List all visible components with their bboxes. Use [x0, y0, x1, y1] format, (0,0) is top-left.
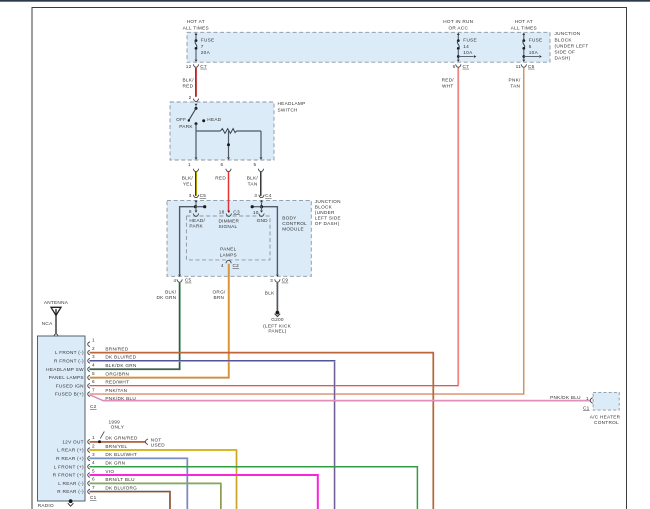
wire ORG/BRN — [90, 264, 229, 378]
svg-text:BLK/: BLK/ — [165, 289, 177, 294]
wire PARK leg down — [195, 131, 197, 157]
svg-text:A/C HEATER: A/C HEATER — [590, 415, 621, 420]
svg-text:CONTROL: CONTROL — [282, 221, 307, 226]
radio case ground — [69, 499, 73, 503]
svg-text:11: 11 — [516, 64, 522, 69]
connector 11 C5 — [521, 64, 526, 67]
svg-text:YEL: YEL — [183, 182, 193, 187]
svg-text:ANTENNA: ANTENNA — [44, 300, 69, 305]
wire BLK to G200 — [276, 283, 278, 311]
svg-text:5: 5 — [92, 371, 95, 376]
svg-text:RED: RED — [183, 84, 194, 89]
svg-text:BLOCK: BLOCK — [555, 37, 573, 42]
svg-text:BODY: BODY — [282, 216, 297, 221]
junction dot on dimmer wiper — [227, 143, 230, 146]
svg-text:12V OUT: 12V OUT — [62, 439, 84, 444]
svg-text:FUSE: FUSE — [463, 38, 477, 43]
headlamp switch box — [170, 102, 274, 160]
radio C2 pin 1 stub — [88, 342, 90, 347]
svg-text:C5: C5 — [185, 278, 192, 283]
svg-text:(UNDER LEFT: (UNDER LEFT — [555, 43, 589, 48]
svg-text:PARK: PARK — [189, 224, 203, 229]
svg-text:1: 1 — [92, 338, 95, 343]
svg-text:OFF: OFF — [176, 117, 186, 122]
junction dot B — [260, 205, 263, 208]
svg-text:6: 6 — [92, 477, 95, 482]
top navy browser bar — [0, 0, 650, 2]
radio C2 pin 7 stub — [88, 392, 90, 397]
wire BLK/TAN — [260, 172, 262, 196]
wire BCM internal right branch — [262, 207, 278, 275]
svg-text:JUNCTION: JUNCTION — [555, 31, 581, 36]
svg-text:18: 18 — [219, 210, 225, 215]
svg-text:C3: C3 — [233, 210, 240, 215]
contact HEAD — [202, 119, 205, 122]
radio C2 pin 5 stub — [88, 375, 90, 380]
wire RED — [228, 172, 230, 212]
svg-text:BLK/DK GRN: BLK/DK GRN — [105, 363, 136, 368]
wire DK BLU/RED — [90, 361, 335, 509]
svg-text:NCA: NCA — [42, 321, 53, 326]
svg-text:WHT: WHT — [442, 84, 454, 89]
svg-text:BLK/: BLK/ — [183, 77, 195, 82]
svg-text:7: 7 — [92, 485, 95, 490]
svg-text:7: 7 — [201, 44, 204, 49]
svg-text:DK GRN/RED: DK GRN/RED — [105, 436, 138, 441]
svg-text:ALL TIMES: ALL TIMES — [183, 26, 209, 31]
svg-text:BRN: BRN — [213, 295, 224, 300]
svg-text:HEAD: HEAD — [207, 117, 221, 122]
svg-text:PARK: PARK — [179, 124, 193, 129]
wire BLK/RED — [195, 68, 197, 97]
wire dimmer wiper — [228, 131, 230, 157]
wire RED/WHT — [90, 68, 459, 386]
svg-text:C2: C2 — [90, 404, 97, 409]
radio C2 pin 3 stub — [88, 358, 90, 363]
svg-text:8: 8 — [189, 209, 192, 214]
svg-text:10A: 10A — [529, 50, 539, 55]
svg-text:ORG/BRN: ORG/BRN — [105, 371, 129, 376]
svg-text:JUNCTION: JUNCTION — [315, 199, 341, 204]
svg-text:C7: C7 — [463, 64, 470, 69]
radio C2 pin 6 stub — [88, 383, 90, 388]
wire stub right of node A — [196, 206, 205, 208]
svg-text:5: 5 — [529, 44, 532, 49]
svg-text:14: 14 — [463, 44, 469, 49]
svg-text:3: 3 — [189, 193, 192, 198]
svg-text:3: 3 — [270, 278, 273, 283]
body control module inner box — [186, 216, 270, 260]
svg-text:4: 4 — [221, 263, 224, 268]
wire VIO — [90, 475, 318, 509]
svg-text:L REAR (+): L REAR (+) — [57, 448, 84, 453]
svg-text:C9: C9 — [282, 278, 289, 283]
radio C1 pin 3 stub — [88, 456, 90, 461]
svg-text:DK GRN: DK GRN — [156, 295, 176, 300]
svg-text:5: 5 — [92, 468, 95, 473]
wire PNK/DK BLU — [90, 395, 591, 401]
svg-text:L FRONT (-): L FRONT (-) — [55, 350, 84, 355]
svg-text:BRN/YEL: BRN/YEL — [105, 444, 127, 449]
svg-text:C4: C4 — [265, 193, 272, 198]
A/C heater control box — [593, 392, 619, 410]
svg-text:C1: C1 — [90, 495, 97, 500]
svg-text:2: 2 — [92, 346, 95, 351]
ground G200 — [276, 311, 280, 315]
contact OFF — [188, 119, 190, 121]
radio box — [38, 336, 86, 501]
switch pin 1 exit — [195, 157, 198, 159]
svg-text:OR ACC: OR ACC — [448, 26, 468, 31]
svg-text:20A: 20A — [201, 50, 211, 55]
wire DK BLU/ORG — [90, 492, 171, 509]
radio C2 pin 2 stub — [88, 350, 90, 355]
wire stub left of node B — [252, 206, 261, 208]
svg-text:BRN/LT BLU: BRN/LT BLU — [105, 477, 135, 482]
wire BLK/YEL — [195, 172, 197, 196]
svg-text:G200: G200 — [271, 317, 284, 322]
svg-text:FUSE: FUSE — [201, 38, 215, 43]
1999-only pointer line — [100, 432, 104, 439]
svg-text:ALL TIMES: ALL TIMES — [511, 26, 537, 31]
svg-text:TAN: TAN — [248, 182, 258, 187]
svg-text:ONLY: ONLY — [111, 424, 125, 429]
junction block fuse band box — [187, 32, 550, 62]
switch pin 5 exit — [260, 157, 263, 159]
svg-text:USED: USED — [151, 442, 165, 447]
svg-text:5: 5 — [254, 162, 257, 167]
fuse 14 feed arrow — [457, 55, 460, 58]
svg-text:BLOCK: BLOCK — [315, 204, 333, 209]
svg-text:PANEL: PANEL — [220, 247, 237, 252]
connector NOT USED — [145, 439, 148, 445]
svg-text:FUSE: FUSE — [529, 38, 543, 43]
connector 3 C4 — [259, 195, 264, 198]
svg-text:BLK/: BLK/ — [182, 175, 194, 180]
radio C1 pin 5 stub — [88, 473, 90, 478]
wire DK BLU/WHT — [90, 458, 188, 509]
svg-text:R FRONT (+): R FRONT (+) — [53, 473, 84, 478]
svg-text:OF DASH): OF DASH) — [315, 221, 340, 226]
svg-text:3: 3 — [92, 354, 95, 359]
svg-text:2: 2 — [189, 95, 192, 100]
svg-text:HOT AT: HOT AT — [187, 19, 205, 24]
radio C1 pin 4 stub — [88, 464, 90, 469]
svg-text:BLK: BLK — [265, 291, 275, 296]
svg-text:10A: 10A — [463, 50, 473, 55]
wire right leg down — [260, 131, 262, 157]
wire DK GRN/RED (1999 only, not used) — [90, 441, 146, 443]
svg-text:FUSED IGN: FUSED IGN — [56, 383, 84, 388]
radio C1 pin 6 stub — [88, 481, 90, 486]
svg-text:R FRONT (-): R FRONT (-) — [54, 358, 84, 363]
junction dot A2 — [203, 205, 206, 208]
svg-text:VIO: VIO — [105, 469, 114, 474]
svg-text:12: 12 — [186, 64, 192, 69]
svg-text:(UNDER: (UNDER — [315, 210, 335, 215]
svg-text:10: 10 — [253, 210, 259, 215]
junction dot 1999-only wire — [98, 440, 101, 443]
svg-text:1: 1 — [188, 162, 191, 167]
svg-text:7: 7 — [92, 388, 95, 393]
svg-text:PANEL): PANEL) — [268, 329, 286, 334]
svg-text:DK GRN: DK GRN — [105, 461, 125, 466]
svg-text:RED/: RED/ — [442, 77, 455, 82]
connector 12 C7 — [193, 64, 198, 67]
svg-text:6: 6 — [92, 379, 95, 384]
wire BRN/YEL — [90, 450, 237, 509]
svg-text:PANEL LAMPS: PANEL LAMPS — [49, 375, 84, 380]
svg-text:R REAR (-): R REAR (-) — [57, 489, 84, 494]
svg-text:6: 6 — [453, 64, 456, 69]
svg-text:R REAR (+): R REAR (+) — [56, 456, 84, 461]
svg-text:BRN/RED: BRN/RED — [105, 346, 128, 351]
wire PNK/TAN — [90, 68, 524, 394]
svg-text:CONTROL: CONTROL — [594, 420, 619, 425]
svg-text:SIGNAL: SIGNAL — [219, 224, 238, 229]
junction block exit 4 C5 — [178, 275, 181, 277]
antenna symbol — [51, 307, 61, 315]
svg-text:C5: C5 — [200, 193, 207, 198]
svg-text:ORG/: ORG/ — [212, 289, 226, 294]
svg-text:SIDE OF: SIDE OF — [555, 50, 576, 55]
svg-text:C1: C1 — [583, 406, 590, 411]
dimmer bus wire — [196, 130, 221, 132]
dimmer rheostat resistor — [221, 129, 237, 134]
connector 6 C7 — [456, 64, 461, 67]
wire PARK contact down to bus — [195, 124, 197, 131]
svg-text:HEADLAMP SW: HEADLAMP SW — [46, 367, 84, 372]
svg-text:HOT AT: HOT AT — [515, 19, 533, 24]
svg-text:SWITCH: SWITCH — [278, 107, 298, 112]
radio C2 pin 4 stub — [88, 367, 90, 372]
svg-text:FUSED B(+): FUSED B(+) — [55, 392, 84, 397]
svg-text:HEADLAMP: HEADLAMP — [278, 101, 306, 106]
svg-text:RED/WHT: RED/WHT — [105, 380, 129, 385]
svg-text:HOT IN RUN: HOT IN RUN — [443, 19, 473, 24]
wire BCM internal left branch — [180, 207, 196, 275]
radio C1 pin 1 stub — [88, 439, 90, 444]
svg-text:LEFT SIDE: LEFT SIDE — [315, 216, 341, 221]
wire DK GRN — [90, 467, 418, 509]
svg-text:PNK/DK BLU: PNK/DK BLU — [105, 396, 136, 401]
wire BLK/DK GRN — [90, 283, 180, 370]
junction block BCM outer box — [167, 200, 311, 276]
svg-text:3: 3 — [254, 193, 257, 198]
BCM pin 4 C2 exit — [226, 260, 231, 263]
svg-text:RADIO: RADIO — [38, 503, 54, 508]
fuse 5 feed arrow — [522, 55, 525, 58]
svg-text:4: 4 — [173, 278, 176, 283]
wire BRN/RED — [90, 353, 434, 509]
svg-text:DK BLU/WHT: DK BLU/WHT — [105, 452, 137, 457]
svg-text:1: 1 — [92, 435, 95, 440]
junction dot A — [194, 205, 197, 208]
svg-text:MODULE: MODULE — [282, 227, 304, 232]
junction block exit 3 C9 — [276, 275, 279, 277]
junction dot B2 — [251, 205, 254, 208]
svg-text:GND: GND — [257, 218, 269, 223]
radio C1 pin 2 stub — [88, 448, 90, 453]
BCM pin 8 entry — [195, 207, 197, 210]
svg-text:PNK/TAN: PNK/TAN — [105, 388, 127, 393]
svg-text:DASH): DASH) — [555, 56, 571, 61]
svg-text:PNK/DK BLU: PNK/DK BLU — [550, 395, 581, 400]
svg-text:3: 3 — [92, 452, 95, 457]
headlamp switch pivot — [195, 107, 198, 110]
radio C1 pin 7 stub — [88, 489, 90, 494]
contact PARK — [195, 122, 198, 125]
svg-text:4: 4 — [92, 460, 95, 465]
svg-text:HEAD/: HEAD/ — [189, 218, 205, 223]
svg-text:RED: RED — [215, 175, 226, 180]
svg-text:BLK/: BLK/ — [247, 175, 259, 180]
antenna connector at radio — [54, 334, 58, 336]
svg-text:1: 1 — [586, 396, 589, 401]
BCM pin 18 C3 entry (red wire) — [228, 211, 230, 214]
svg-text:L REAR (-): L REAR (-) — [58, 481, 84, 486]
svg-text:DK BLU/ORG: DK BLU/ORG — [105, 485, 137, 490]
switch lever (to OFF) — [189, 108, 196, 120]
fuse F7 20A — [195, 35, 197, 40]
fuse F14 10A — [457, 35, 459, 40]
switch pin 6 exit — [227, 157, 230, 159]
svg-text:2: 2 — [92, 444, 95, 449]
BCM pin 10 entry — [261, 207, 263, 210]
svg-text:6: 6 — [221, 162, 224, 167]
fuse F5 10A — [523, 35, 525, 40]
svg-text:L FRONT (+): L FRONT (+) — [54, 464, 84, 469]
svg-text:LAMPS: LAMPS — [220, 252, 237, 257]
svg-text:TAN: TAN — [510, 84, 520, 89]
svg-text:C5: C5 — [528, 64, 535, 69]
wire BRN/LT BLU — [90, 483, 221, 509]
svg-text:C2: C2 — [233, 263, 240, 268]
svg-text:4: 4 — [92, 363, 95, 368]
connector A/C heater pin 1 C1 — [590, 398, 593, 404]
connector 3 C5 — [193, 195, 198, 198]
svg-text:C7: C7 — [200, 64, 207, 69]
svg-text:DK BLU/RED: DK BLU/RED — [105, 355, 136, 360]
svg-text:DIMMER: DIMMER — [219, 219, 240, 224]
svg-text:PNK/: PNK/ — [509, 77, 521, 82]
